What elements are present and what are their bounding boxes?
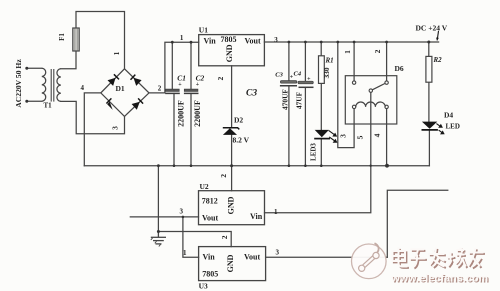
svg-text:2: 2	[373, 49, 382, 53]
svg-text:1: 1	[274, 208, 278, 216]
svg-text:AC220V 50 Hz: AC220V 50 Hz	[14, 59, 23, 108]
svg-text:4: 4	[373, 133, 382, 137]
svg-text:C4: C4	[294, 71, 302, 78]
svg-text:7805: 7805	[202, 270, 218, 279]
svg-text:D4: D4	[444, 111, 453, 120]
svg-text:C3: C3	[275, 72, 283, 79]
svg-text:330: 330	[322, 67, 331, 78]
svg-text:D2: D2	[234, 116, 243, 125]
svg-text:Vin: Vin	[250, 212, 263, 221]
svg-text:www.elecfans.com: www.elecfans.com	[391, 273, 489, 285]
svg-text:LED: LED	[446, 123, 460, 131]
svg-text:F1: F1	[58, 33, 66, 41]
svg-text:1: 1	[183, 249, 187, 257]
svg-text:8.2 V: 8.2 V	[233, 136, 250, 145]
svg-text:U1: U1	[199, 26, 208, 35]
svg-text:1: 1	[343, 50, 352, 54]
svg-text:GND: GND	[226, 254, 235, 272]
svg-text:5: 5	[356, 135, 365, 139]
svg-text:C3: C3	[246, 89, 257, 99]
svg-text:Vout: Vout	[245, 37, 261, 46]
svg-text:3: 3	[180, 208, 184, 216]
svg-text:2: 2	[219, 174, 228, 178]
svg-text:DC +24 V: DC +24 V	[416, 24, 448, 33]
svg-text:1: 1	[180, 34, 184, 42]
svg-text:GND: GND	[226, 196, 235, 214]
svg-text:3: 3	[338, 134, 347, 138]
svg-text:470UF: 470UF	[281, 89, 290, 110]
svg-text:+: +	[178, 82, 182, 88]
svg-text:T1: T1	[44, 102, 53, 110]
svg-text:+: +	[307, 77, 311, 83]
svg-text:3: 3	[111, 126, 120, 130]
svg-text:2: 2	[158, 85, 162, 93]
svg-text:Vout: Vout	[244, 253, 260, 262]
svg-text:2200UF: 2200UF	[177, 100, 186, 127]
svg-text:2: 2	[216, 76, 225, 80]
svg-text:R2: R2	[433, 56, 443, 64]
svg-text:U3: U3	[199, 282, 208, 291]
svg-text:D6: D6	[395, 64, 404, 73]
svg-text:Vin: Vin	[204, 37, 217, 46]
svg-text:R1: R1	[325, 57, 334, 65]
svg-text:Vin: Vin	[203, 253, 216, 262]
svg-text:U2: U2	[200, 182, 209, 191]
svg-text:D1: D1	[116, 84, 125, 93]
svg-text:LED3: LED3	[309, 143, 317, 161]
svg-text:+: +	[290, 75, 294, 81]
svg-text:7812: 7812	[202, 197, 218, 206]
svg-text:+: +	[196, 82, 200, 88]
svg-text:2: 2	[220, 235, 229, 239]
svg-text:7805: 7805	[221, 35, 237, 44]
svg-text:4: 4	[81, 84, 85, 92]
svg-text:3: 3	[276, 249, 280, 257]
svg-text:3: 3	[274, 36, 278, 44]
svg-text:47UF: 47UF	[295, 91, 304, 109]
svg-text:2200UF: 2200UF	[193, 100, 202, 127]
svg-text:1: 1	[112, 51, 121, 55]
svg-text:Vout: Vout	[202, 214, 218, 223]
svg-text:GND: GND	[225, 44, 234, 62]
